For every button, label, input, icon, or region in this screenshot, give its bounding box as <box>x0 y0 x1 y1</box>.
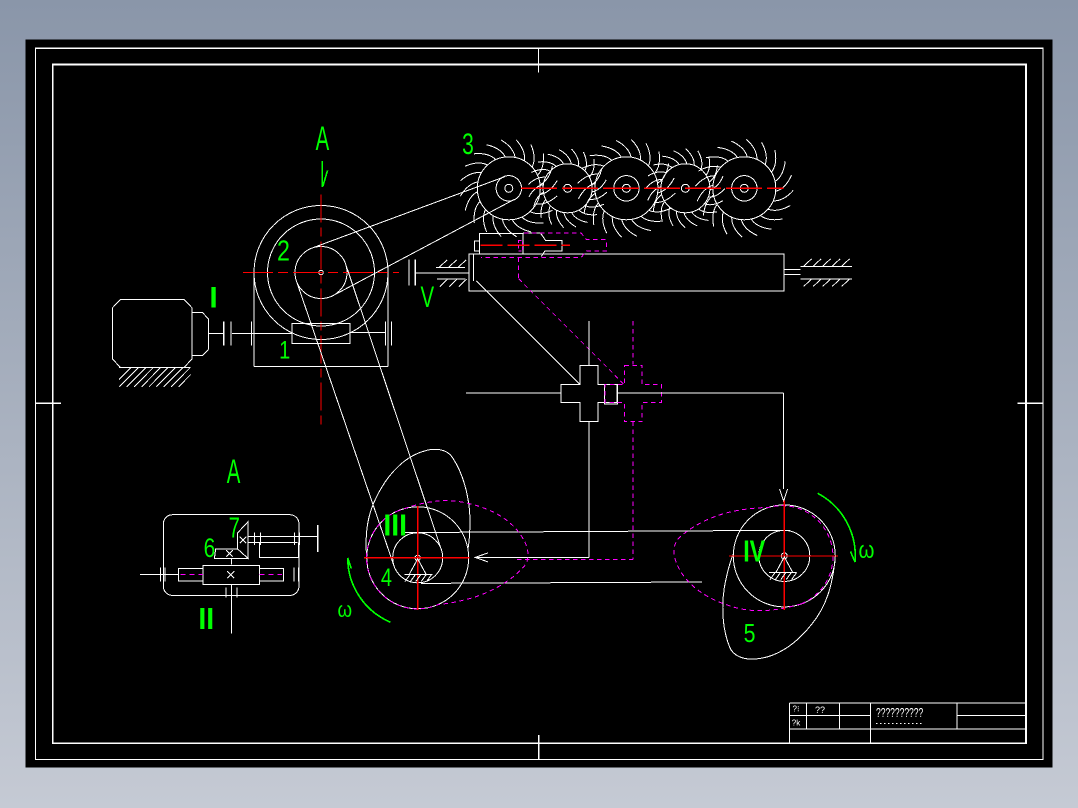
svg-text:4: 4 <box>381 564 392 592</box>
centering tick top <box>538 48 540 72</box>
belt 2-3 line 1 <box>333 199 514 295</box>
star wheel 3 disc <box>595 157 658 220</box>
pulley 2 bore circle <box>295 247 347 299</box>
cam III base circle <box>367 507 469 609</box>
svg-text:A: A <box>316 119 330 157</box>
bearing block 1 <box>292 324 350 344</box>
cross roller rect <box>605 385 618 405</box>
shaft V line <box>416 272 469 274</box>
svg-text:??: ?? <box>815 705 825 715</box>
section arrow A <box>321 161 323 187</box>
svg-text:?k: ?k <box>792 719 801 728</box>
table left plate <box>473 254 475 281</box>
svg-text:??????????: ?????????? <box>876 706 923 720</box>
svg-text:6: 6 <box>204 534 216 564</box>
centering tick bottom <box>538 735 540 760</box>
worm sleeve right <box>259 569 283 581</box>
worm shaft mark <box>227 571 234 578</box>
star wheel 5 pulley circle <box>732 176 757 201</box>
gear chamber <box>259 543 298 558</box>
star wheel 5 hub <box>740 184 748 192</box>
cam III pivot <box>409 559 426 575</box>
vertical shaft bearing <box>225 588 227 598</box>
bearing bar left of pedestal <box>250 322 252 346</box>
svg-text:A: A <box>227 453 241 491</box>
bevel 6 shaft mark <box>226 550 232 556</box>
centering tick left <box>36 402 61 404</box>
star wheel 2 hub <box>564 184 572 192</box>
cam IV v-centerline <box>783 500 785 609</box>
worm bearing right <box>293 567 295 581</box>
vertical gear shaft <box>231 558 233 564</box>
belt 2-III line 1 <box>296 281 394 566</box>
slide table <box>469 254 784 291</box>
svg-text:?⁝: ?⁝ <box>793 705 800 714</box>
output bearing pair 2 <box>294 533 296 545</box>
follower rod at cam III <box>475 556 589 558</box>
inner border frame <box>53 64 1026 743</box>
gearbox housing <box>163 515 299 596</box>
arrow to cam IV <box>780 489 788 501</box>
cam IV pivot <box>776 557 793 573</box>
star wheel 4 tines <box>646 149 725 228</box>
cam IV base circle <box>733 505 835 607</box>
motor front cap <box>192 313 208 356</box>
pusher centerline <box>480 244 570 246</box>
star wheel 5 tines <box>695 139 793 237</box>
star wheel 1 pulley circle <box>496 176 521 201</box>
table diagonal to cross <box>477 281 581 385</box>
bevel gear 6 <box>214 549 248 559</box>
shaft in pedestal <box>350 332 386 334</box>
rotation arc III <box>348 558 391 622</box>
phantom follower rod <box>517 559 633 561</box>
pedestal right bearing bars <box>385 322 387 346</box>
pusher phantom outline <box>481 233 606 258</box>
cam IV pivot hatch <box>770 573 775 580</box>
coupling V <box>408 260 410 286</box>
phantom vertical rod lower <box>632 421 634 559</box>
cam IV h-centerline <box>729 555 838 557</box>
support wall V upper <box>436 266 465 268</box>
pusher body <box>480 233 524 254</box>
worm bearing left <box>159 567 161 581</box>
pulley 2 hub <box>319 270 323 274</box>
motor ground hatch <box>112 368 198 387</box>
vertical drop rod to cam IV <box>783 393 785 489</box>
horizontal link rod <box>466 392 561 394</box>
cam III v-centerline <box>417 506 419 610</box>
worm sleeve left <box>178 569 203 581</box>
svg-text:1: 1 <box>279 336 290 364</box>
title block grid <box>789 702 1026 704</box>
pusher rod <box>523 233 562 256</box>
pulley 2 h-centerline <box>243 272 399 274</box>
cam III phantom profile <box>367 501 528 609</box>
phantom drop line <box>518 258 520 279</box>
output bearing pair 1 <box>254 533 256 545</box>
svg-text:3: 3 <box>462 129 474 161</box>
worm hidden centerline <box>181 574 203 576</box>
belt III-IV lower <box>421 582 702 583</box>
support wall V lower <box>437 278 466 280</box>
cross vertical rod lower <box>588 422 590 558</box>
cam IV hub <box>781 553 787 559</box>
svg-text:III: III <box>383 508 407 542</box>
worm shaft left ext <box>140 574 178 576</box>
star wheel 1 hub <box>505 184 513 192</box>
arrow at cam III <box>475 553 488 562</box>
gearbox output shaft <box>248 536 318 538</box>
pulley 2 v-centerline <box>320 195 322 429</box>
svg-text:5: 5 <box>744 619 756 649</box>
bevel gear 7 <box>238 522 249 559</box>
star wheel 3 pulley circle <box>614 176 639 201</box>
pedestal base <box>254 366 388 368</box>
star wheel 1 disc <box>477 157 540 220</box>
svg-text:ω: ω <box>338 599 353 623</box>
cross vertical rod upper <box>588 321 590 365</box>
star wheel 4 ring <box>661 164 710 213</box>
wheel row centerline <box>521 187 784 189</box>
svg-text:2: 2 <box>277 234 290 267</box>
star wheel 1 tines <box>460 140 557 237</box>
motor M body <box>113 299 193 367</box>
star wheel 2 tines <box>528 149 607 228</box>
star wheel 4 hub <box>681 184 689 192</box>
cam III h-centerline <box>364 557 470 559</box>
belt 2-3 line 2 <box>312 177 505 248</box>
pedestal right wall <box>387 273 389 367</box>
cross coupling phantom <box>605 365 661 421</box>
star wheel 3 hub <box>622 184 630 192</box>
table right shaft <box>784 268 801 270</box>
pusher phantom small rect <box>518 240 522 251</box>
svg-text:ω: ω <box>859 536 875 563</box>
cam III profile <box>366 449 470 567</box>
shaft I to pedestal <box>232 332 292 334</box>
belt III-IV upper <box>401 530 790 532</box>
cam IV inner circle <box>759 530 810 581</box>
belt 2-III line 2 <box>346 264 442 550</box>
svg-text:V: V <box>420 281 434 314</box>
svg-text:I: I <box>209 282 217 315</box>
star wheel 2 ring <box>543 164 592 213</box>
output flange <box>317 525 319 552</box>
star wheel 3 tines <box>578 140 676 238</box>
svg-text:II: II <box>198 602 214 636</box>
cam III hub <box>415 555 420 560</box>
svg-text:IV: IV <box>743 533 766 568</box>
svg-text:7: 7 <box>229 512 240 544</box>
pulley 2 rim circle <box>268 219 375 326</box>
motor shaft <box>208 332 223 334</box>
cam III pivot hatch <box>405 575 410 582</box>
centering tick right <box>1017 402 1043 404</box>
cam IV profile <box>723 554 835 659</box>
pedestal left wall <box>253 273 255 367</box>
phantom vertical rod upper <box>632 321 634 365</box>
phantom diagonal to cross <box>519 279 625 385</box>
cam III inner circle <box>393 533 443 583</box>
pusher bracket <box>475 241 480 251</box>
cam IV phantom profile <box>674 506 833 611</box>
cross coupling (white) <box>561 365 617 421</box>
pulley 2 outer circle <box>254 206 388 340</box>
worm block <box>203 565 259 584</box>
table support right lower <box>801 278 852 280</box>
motor coupling <box>223 322 225 346</box>
table support right upper <box>801 265 852 267</box>
bevel 7 shaft mark <box>240 537 246 543</box>
star wheel 5 disc <box>713 157 776 220</box>
rotation arc IV <box>818 493 856 562</box>
